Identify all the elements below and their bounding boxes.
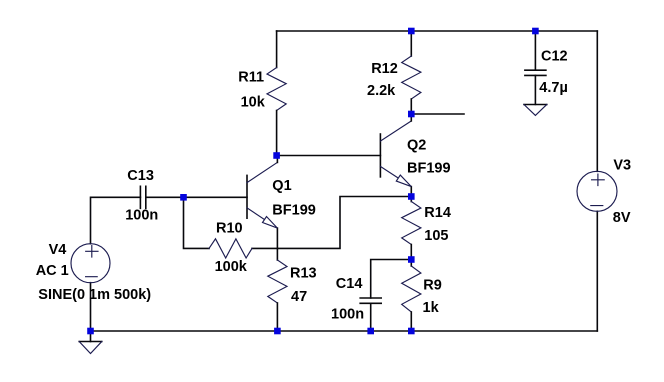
resistor R14 <box>402 197 421 260</box>
junction node A (C13 / R10 / Q1 base) <box>180 194 187 201</box>
wire V4 bottom to rail <box>90 283 92 331</box>
svg-text:47: 47 <box>291 289 307 305</box>
junction Q1 collector / R11 bottom <box>273 152 280 159</box>
junction C12 top on rail <box>532 28 539 35</box>
svg-text:BF199: BF199 <box>407 160 451 176</box>
ground below C12 <box>524 105 547 116</box>
junction V4 bottom on rail <box>87 328 94 335</box>
junction Q2 emitter / R14 top <box>408 193 415 200</box>
svg-text:4.7µ: 4.7µ <box>539 80 568 96</box>
voltage source V3 <box>577 171 617 211</box>
svg-text:V4: V4 <box>49 242 67 258</box>
svg-text:100n: 100n <box>125 208 158 224</box>
resistor R11 <box>267 31 286 156</box>
wire Q1 collector node to Q2 base <box>277 155 381 157</box>
junction Q2 collector / R12 bottom <box>408 111 415 118</box>
wire R10 right through Q1 emitter node to Q2 emitter node <box>252 197 411 249</box>
resistor R13 <box>268 248 287 331</box>
wire top supply rail <box>277 30 598 32</box>
resistor R10 <box>209 239 252 258</box>
svg-text:1k: 1k <box>423 300 440 316</box>
wire C13 right plate to node A <box>146 196 184 198</box>
svg-text:R13: R13 <box>290 266 317 282</box>
wire C14 bottom to rail <box>370 303 372 331</box>
resistor R9 <box>402 260 421 332</box>
svg-text:100n: 100n <box>331 307 364 323</box>
junction R13 bottom on rail <box>274 328 281 335</box>
wire R14 bottom node to C14 top <box>371 260 412 299</box>
svg-text:C12: C12 <box>541 49 568 65</box>
svg-text:V3: V3 <box>613 158 631 174</box>
svg-text:Q2: Q2 <box>407 138 426 154</box>
wire V4 top to C13 left plate <box>91 197 141 243</box>
svg-text:C14: C14 <box>336 276 363 292</box>
svg-text:105: 105 <box>424 228 448 244</box>
svg-text:BF199: BF199 <box>272 203 316 219</box>
resistor R12 <box>402 31 421 114</box>
wire node A to Q1 base <box>184 196 248 198</box>
capacitor C14 <box>360 298 381 303</box>
svg-text:R12: R12 <box>371 61 398 77</box>
svg-text:R14: R14 <box>424 205 451 221</box>
junction R9 bottom on rail <box>408 328 415 335</box>
svg-text:10k: 10k <box>241 95 266 111</box>
wire bottom ground rail <box>91 330 598 332</box>
svg-text:100k: 100k <box>215 259 248 275</box>
svg-text:R9: R9 <box>423 277 442 293</box>
svg-text:R11: R11 <box>238 70 264 86</box>
transistor Q2 <box>380 114 411 197</box>
wire right rail lower (V3 minus to bottom rail) <box>596 211 598 331</box>
capacitor C13 <box>140 186 145 208</box>
svg-text:C13: C13 <box>127 168 154 184</box>
svg-text:8V: 8V <box>613 210 631 226</box>
svg-text:2.2k: 2.2k <box>367 83 396 99</box>
junction C14 bottom on rail <box>367 328 374 335</box>
capacitor C12 <box>525 31 546 104</box>
wire right rail upper (top rail to V3 plus) <box>596 31 598 171</box>
transistor Q1 <box>247 156 277 249</box>
wire Q2 collector stub output <box>411 113 464 115</box>
junction R14 bottom / R9 top / C14 <box>408 256 415 263</box>
svg-text:AC 1: AC 1 <box>36 263 69 279</box>
voltage source V4 <box>71 244 110 283</box>
ground below V4 <box>79 331 102 354</box>
wire node A down to R10 left <box>184 197 210 248</box>
svg-text:Q1: Q1 <box>272 178 291 194</box>
junction R12 top on rail <box>408 28 415 35</box>
svg-text:SINE(0 1m 500k): SINE(0 1m 500k) <box>38 287 151 303</box>
svg-text:R10: R10 <box>216 221 243 237</box>
